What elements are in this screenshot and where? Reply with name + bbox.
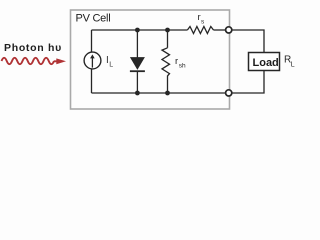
wire left vertical — [91, 30, 93, 93]
wire bottom — [92, 92, 226, 94]
diode D1 — [130, 57, 145, 70]
wire diode branch bottom — [136, 71, 138, 93]
wire diode branch top — [136, 30, 138, 58]
PV Cell enclosure box — [71, 10, 230, 109]
photon wavy arrow — [2, 58, 57, 64]
svg-text:PV Cell: PV Cell — [76, 13, 111, 25]
wire shunt branch top — [167, 30, 169, 48]
terminal node bottom — [226, 90, 232, 96]
wire terminal to right corner — [232, 30, 264, 53]
wire load to bottom — [232, 71, 264, 94]
svg-text:r: r — [175, 56, 178, 67]
wire resistor to terminal — [214, 29, 226, 31]
svg-text:L: L — [109, 62, 113, 69]
junction dot bottom shunt — [165, 91, 170, 96]
svg-text:sh: sh — [179, 63, 186, 70]
junction dot top shunt — [165, 28, 170, 33]
terminal node top — [226, 27, 232, 33]
junction dot top diode — [135, 28, 140, 33]
svg-text:Photon hυ: Photon hυ — [4, 42, 62, 54]
resistor r_sh — [162, 48, 170, 76]
svg-text:Load: Load — [253, 57, 279, 69]
resistor r_s — [187, 27, 213, 34]
current source I_L — [84, 52, 101, 69]
svg-text:L: L — [291, 62, 295, 69]
wire shunt branch bottom — [167, 76, 169, 94]
wire top — [92, 29, 188, 31]
Load box — [249, 53, 280, 71]
junction dot bottom diode — [135, 91, 140, 96]
